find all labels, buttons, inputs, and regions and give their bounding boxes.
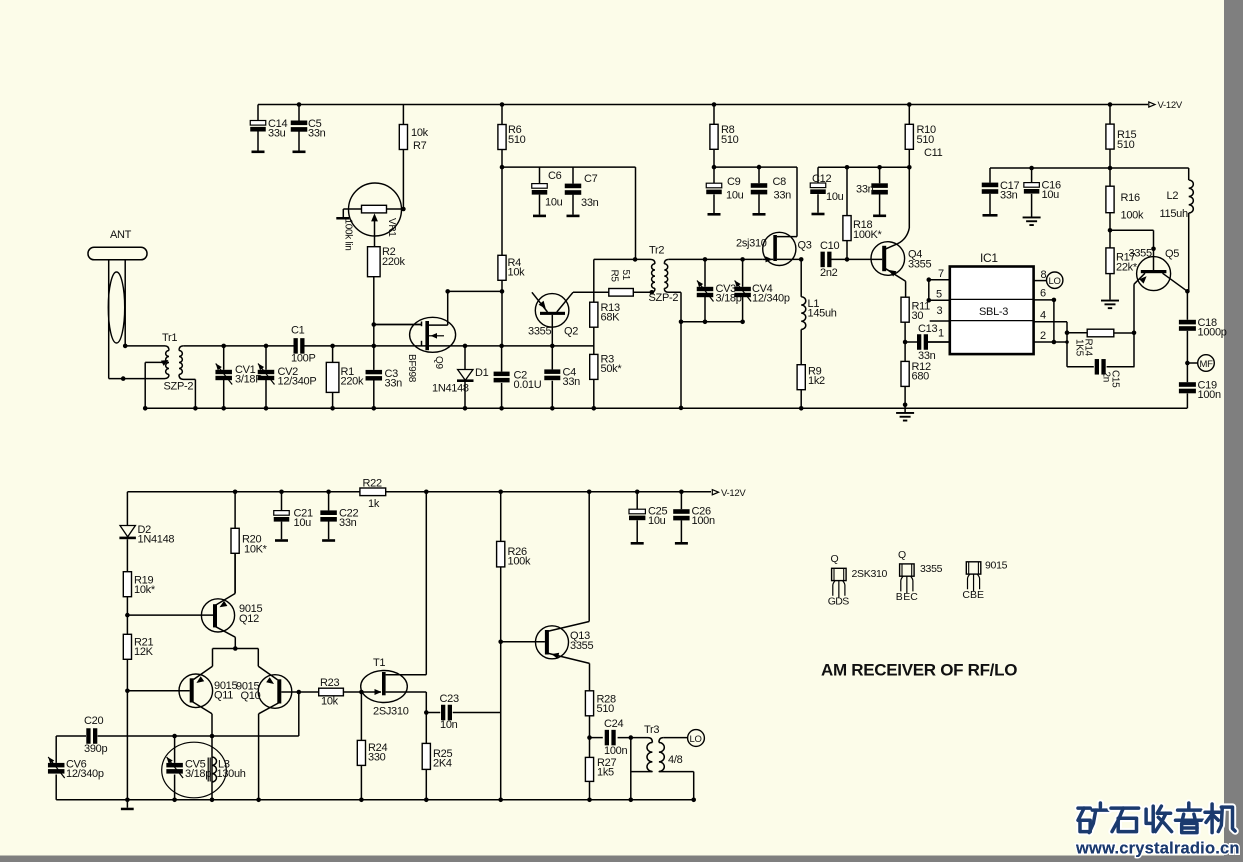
svg-text:3355: 3355 bbox=[528, 326, 551, 338]
wire Q9 drain to R4 bbox=[448, 290, 502, 292]
svg-text:Q10: Q10 bbox=[241, 690, 261, 702]
svg-text:2n2: 2n2 bbox=[820, 267, 838, 279]
wire Q2 collector to R5 bbox=[573, 291, 609, 293]
power arrow lower V-12V bbox=[712, 490, 718, 495]
transistor Q5 3355 bbox=[1137, 257, 1171, 291]
svg-text:10k*: 10k* bbox=[134, 584, 156, 596]
potentiometer VR1 bbox=[349, 183, 402, 236]
svg-text:C: C bbox=[910, 591, 918, 603]
LO port circle lower bbox=[688, 730, 705, 747]
svg-text:LO: LO bbox=[1049, 276, 1061, 287]
svg-text:510: 510 bbox=[917, 134, 935, 146]
watermark glyph shou bbox=[1146, 809, 1153, 823]
svg-text:www.crystalradio.cn: www.crystalradio.cn bbox=[1075, 840, 1240, 858]
MF port circle bbox=[1185, 361, 1190, 366]
resistor R4 bbox=[501, 167, 503, 255]
svg-text:B: B bbox=[896, 591, 903, 603]
svg-text:100k lin: 100k lin bbox=[343, 219, 354, 251]
transistor Q10 9015 bbox=[258, 675, 292, 709]
wire Q5 emitter column bbox=[1133, 284, 1135, 367]
svg-text:E: E bbox=[903, 591, 910, 603]
svg-text:3355: 3355 bbox=[920, 563, 943, 575]
svg-text:1k2: 1k2 bbox=[808, 375, 825, 387]
svg-text:C7: C7 bbox=[584, 173, 598, 185]
variable capacitor CV3 bbox=[703, 257, 708, 262]
wire R16 R17 junction to Q5 base bbox=[1108, 228, 1113, 233]
IC1 pin 8 bbox=[1034, 280, 1047, 282]
svg-text:C20: C20 bbox=[84, 715, 103, 727]
wire R8 bus bbox=[712, 165, 717, 170]
svg-text:220k: 220k bbox=[382, 256, 405, 268]
svg-text:Tr2: Tr2 bbox=[649, 245, 664, 257]
svg-text:50k*: 50k* bbox=[601, 363, 623, 375]
wire Q11 base bbox=[125, 689, 130, 694]
LO port circle bbox=[1047, 272, 1063, 288]
svg-text:2: 2 bbox=[1040, 330, 1046, 342]
capacitor C11 33n bbox=[877, 165, 882, 170]
watermark glyph kuang bbox=[1078, 804, 1090, 811]
svg-text:33n: 33n bbox=[856, 184, 874, 196]
resistor R12 bbox=[901, 361, 909, 386]
resistor R24 330 bbox=[360, 692, 362, 740]
wire C17 C16 bus bbox=[1108, 166, 1113, 171]
wire R26 column to C23 wire bbox=[500, 642, 502, 713]
svg-text:12K: 12K bbox=[134, 646, 154, 658]
IC1 pin 4 bbox=[1034, 321, 1067, 323]
svg-text:Q12: Q12 bbox=[239, 613, 259, 625]
svg-text:Q2: Q2 bbox=[564, 326, 578, 338]
svg-text:510: 510 bbox=[721, 134, 739, 146]
capacitor C22 bbox=[326, 490, 331, 495]
resistor R10 bbox=[907, 102, 912, 107]
svg-text:510: 510 bbox=[508, 134, 526, 146]
svg-text:D1: D1 bbox=[475, 367, 489, 379]
svg-text:7: 7 bbox=[938, 268, 944, 280]
variable capacitor CV2 bbox=[264, 344, 269, 349]
IC1 pin 2 bbox=[1034, 341, 1054, 343]
svg-text:C8: C8 bbox=[773, 176, 787, 188]
capacitor C26 bbox=[679, 490, 684, 495]
svg-text:100k: 100k bbox=[1121, 210, 1144, 222]
resistor R8 bbox=[712, 102, 717, 107]
svg-text:33n: 33n bbox=[774, 190, 792, 202]
wire Tr1 tap bbox=[144, 362, 146, 408]
capacitor C25 bbox=[635, 490, 640, 495]
capacitor C17 bbox=[989, 168, 991, 183]
svg-text:R7: R7 bbox=[413, 140, 427, 152]
svg-text:R14: R14 bbox=[1083, 339, 1094, 357]
variable capacitor CV5 bbox=[172, 734, 177, 739]
svg-text:12/340p: 12/340p bbox=[66, 768, 104, 780]
svg-text:10u: 10u bbox=[826, 191, 844, 203]
IC1 SBL-3 box bbox=[950, 267, 1034, 355]
transistor Q9 BF998 bbox=[410, 317, 456, 352]
resistor R21 bbox=[123, 634, 131, 659]
svg-text:10k: 10k bbox=[411, 127, 429, 139]
resistor R2 bbox=[368, 247, 381, 277]
resistor R28 510 bbox=[585, 691, 593, 716]
svg-text:10u: 10u bbox=[648, 515, 666, 527]
capacitor C1 bbox=[294, 338, 298, 354]
svg-text:33n: 33n bbox=[339, 517, 357, 529]
svg-text:9015: 9015 bbox=[985, 560, 1008, 572]
svg-text:S: S bbox=[842, 596, 849, 608]
capacitor C24 bbox=[587, 735, 592, 740]
wire Q12 base bbox=[125, 613, 130, 618]
svg-text:Tr1: Tr1 bbox=[162, 332, 177, 344]
variable capacitor CV4 bbox=[740, 257, 745, 262]
svg-text:10K*: 10K* bbox=[244, 544, 268, 556]
capacitor C6 bbox=[539, 167, 541, 184]
svg-text:220k: 220k bbox=[341, 376, 364, 388]
svg-text:AM RECEIVER OF RF/LO: AM RECEIVER OF RF/LO bbox=[821, 661, 1017, 680]
wire bottom rail top-circuit bbox=[145, 407, 1187, 409]
legend transistor package 9015 bbox=[966, 562, 981, 574]
svg-text:10k: 10k bbox=[508, 267, 526, 279]
watermark glyph ji bbox=[1208, 804, 1215, 833]
svg-text:VR1: VR1 bbox=[386, 218, 397, 237]
svg-text:10u: 10u bbox=[726, 190, 744, 202]
capacitor C20 bbox=[56, 735, 86, 737]
svg-text:3355: 3355 bbox=[570, 640, 593, 652]
gray border right bbox=[1224, 0, 1243, 862]
resistor R25 2K4 bbox=[425, 713, 427, 744]
capacitor C15 bbox=[1067, 366, 1094, 368]
svg-text:33n: 33n bbox=[385, 378, 403, 390]
gray border bottom bbox=[0, 856, 1243, 862]
capacitor C13 bbox=[903, 340, 908, 345]
svg-text:4: 4 bbox=[1040, 310, 1046, 322]
svg-text:Tr3: Tr3 bbox=[644, 724, 659, 736]
svg-text:C23: C23 bbox=[440, 693, 459, 705]
resistor R3 bbox=[590, 354, 598, 379]
diode D2 1N4148 bbox=[126, 492, 128, 526]
wire Q9 drain bbox=[445, 289, 450, 294]
terminator bar lower-left bbox=[126, 800, 128, 808]
wire Q10 emitter bbox=[258, 714, 260, 800]
svg-text:3/18p: 3/18p bbox=[185, 768, 211, 780]
IC1 pin 1 bbox=[927, 341, 950, 343]
inductor L2 bbox=[1188, 168, 1190, 180]
watermark glyph shi bbox=[1111, 804, 1139, 811]
svg-text:12/340p: 12/340p bbox=[752, 293, 790, 305]
svg-text:C10: C10 bbox=[820, 240, 839, 252]
svg-text:SZP-2: SZP-2 bbox=[164, 381, 194, 393]
svg-text:33n: 33n bbox=[308, 128, 326, 140]
svg-text:2SJ310: 2SJ310 bbox=[373, 706, 409, 718]
svg-text:510: 510 bbox=[1117, 139, 1135, 151]
capacitor C8 bbox=[757, 165, 762, 170]
svg-text:2K4: 2K4 bbox=[433, 758, 452, 770]
wire top V-12V power rail bbox=[258, 104, 1148, 106]
wire C6 C7 bus bbox=[500, 165, 505, 170]
capacitor C19 bbox=[1186, 363, 1188, 382]
svg-text:680: 680 bbox=[912, 371, 930, 383]
svg-text:L2: L2 bbox=[1167, 190, 1179, 202]
svg-text:10k: 10k bbox=[321, 696, 339, 708]
IC1 pin 3 bbox=[930, 320, 950, 322]
resistor R7 bbox=[402, 105, 404, 125]
svg-text:1k: 1k bbox=[368, 498, 380, 510]
svg-text:LO: LO bbox=[690, 734, 702, 745]
diode D1 1N4148 bbox=[463, 344, 468, 349]
svg-text:IC1: IC1 bbox=[980, 251, 998, 265]
capacitor C9 bbox=[713, 167, 715, 183]
wire emitter bracket bbox=[233, 646, 238, 651]
wire pin2 to R14 node bbox=[1066, 333, 1068, 367]
wire C12 bus bbox=[818, 166, 909, 168]
svg-text:10u: 10u bbox=[294, 517, 312, 529]
IC1 pin 6 bbox=[1034, 299, 1054, 301]
svg-text:100n: 100n bbox=[1198, 389, 1221, 401]
resistor R19 bbox=[123, 572, 131, 597]
capacitor C21 bbox=[279, 490, 284, 495]
svg-text:1N4148: 1N4148 bbox=[432, 383, 469, 395]
svg-text:10u: 10u bbox=[1042, 189, 1060, 201]
svg-text:30: 30 bbox=[912, 310, 924, 322]
wire R2 to Q9 gate1 bbox=[372, 322, 377, 327]
variable capacitor CV1 bbox=[221, 344, 226, 349]
wire ANT to Tr1 bbox=[123, 344, 128, 349]
resistor R9 bbox=[797, 365, 805, 390]
resistor R5 51 bbox=[609, 289, 634, 297]
capacitor C10 bbox=[821, 252, 825, 268]
resistor R26 100k bbox=[498, 490, 503, 495]
svg-text:3355: 3355 bbox=[908, 259, 931, 271]
svg-text:100n: 100n bbox=[692, 515, 715, 527]
wire Q11 emitter bbox=[211, 714, 213, 800]
svg-text:Q11: Q11 bbox=[214, 690, 233, 702]
svg-text:C1: C1 bbox=[291, 325, 305, 337]
wire Q4 emitter to R11 bbox=[905, 281, 907, 297]
transistor Q2 3355 bbox=[535, 294, 569, 328]
capacitor C7 bbox=[572, 167, 574, 184]
resistor R27 1k5 bbox=[589, 738, 591, 758]
inductor L1 bbox=[799, 257, 804, 262]
svg-text:22k*: 22k* bbox=[1116, 262, 1138, 274]
resistor R20 bbox=[233, 490, 238, 495]
svg-text:4/8: 4/8 bbox=[668, 754, 683, 766]
svg-text:1k5: 1k5 bbox=[597, 767, 614, 779]
svg-text:2SK310: 2SK310 bbox=[852, 568, 888, 580]
svg-text:Q: Q bbox=[831, 553, 839, 565]
svg-text:33n: 33n bbox=[563, 376, 581, 388]
resistor R22 1k bbox=[360, 488, 386, 496]
svg-text:10u: 10u bbox=[545, 197, 563, 209]
resistor R23 10k bbox=[299, 691, 319, 693]
wire Tr3 secondary to LO bbox=[663, 737, 687, 739]
wire mid row 2 bbox=[333, 345, 594, 347]
resistor R18 bbox=[845, 165, 850, 170]
resistor R14 1K5 bbox=[1087, 329, 1114, 337]
transistor Q4 3355 bbox=[871, 242, 905, 276]
svg-text:145uh: 145uh bbox=[808, 308, 837, 320]
transistor Q13 3355 bbox=[536, 626, 569, 659]
capacitor C14 bbox=[257, 105, 259, 121]
transistor Q12 9015 bbox=[201, 599, 234, 632]
svg-text:Q5: Q5 bbox=[1165, 248, 1179, 260]
svg-text:R23: R23 bbox=[320, 677, 339, 689]
svg-text:100k: 100k bbox=[508, 556, 531, 568]
IC1 pin 5 bbox=[929, 299, 950, 301]
svg-text:SZP-2: SZP-2 bbox=[649, 292, 679, 304]
transistor Q11 9015 bbox=[179, 674, 213, 708]
transistor Q3 2sj310 bbox=[763, 232, 796, 265]
resistor R6 bbox=[500, 102, 505, 107]
svg-text:T1: T1 bbox=[373, 657, 385, 669]
inductor L3 with core bbox=[212, 757, 216, 782]
svg-text:33n: 33n bbox=[581, 197, 599, 209]
wire lower bottom rail bbox=[56, 799, 694, 801]
svg-text:C6: C6 bbox=[548, 170, 562, 182]
wire CV3 CV4 bottom bus bbox=[681, 321, 743, 323]
capacitor C2 bbox=[499, 344, 504, 349]
svg-text:115uh: 115uh bbox=[1160, 208, 1188, 220]
svg-text:Q: Q bbox=[898, 549, 906, 561]
resistor R1 bbox=[330, 344, 335, 349]
resistor R13 bbox=[593, 259, 595, 302]
ground below R17 bbox=[1101, 300, 1119, 302]
capacitor C16 bbox=[1029, 166, 1034, 171]
wire Q10 base bbox=[281, 691, 299, 693]
svg-text:C24: C24 bbox=[604, 718, 623, 730]
svg-text:390p: 390p bbox=[84, 743, 107, 755]
svg-text:R22: R22 bbox=[363, 478, 382, 490]
svg-text:SBL-3: SBL-3 bbox=[979, 306, 1008, 318]
svg-text:Q3: Q3 bbox=[798, 240, 812, 252]
svg-text:33n: 33n bbox=[1000, 190, 1018, 202]
wire Tr2 to Q3 row bbox=[669, 258, 763, 260]
wire R10 to Q4 collector bbox=[908, 167, 910, 228]
svg-text:51: 51 bbox=[620, 270, 631, 281]
svg-text:100n: 100n bbox=[604, 745, 627, 757]
svg-text:R16: R16 bbox=[1121, 192, 1140, 204]
wire mid row bbox=[183, 345, 294, 347]
power arrow V-12V bbox=[1149, 102, 1155, 107]
svg-text:1N4148: 1N4148 bbox=[138, 534, 175, 546]
svg-text:1: 1 bbox=[938, 328, 944, 340]
resistor R16 bbox=[1109, 168, 1111, 186]
resistor R11 bbox=[901, 297, 909, 322]
svg-text:C9: C9 bbox=[727, 176, 741, 188]
watermark glyph yin bbox=[1185, 803, 1192, 808]
svg-text:C12: C12 bbox=[812, 173, 831, 185]
svg-text:6: 6 bbox=[1040, 288, 1046, 300]
svg-text:33u: 33u bbox=[268, 128, 286, 140]
svg-text:5: 5 bbox=[936, 289, 942, 301]
ground below R12 bbox=[904, 408, 906, 412]
svg-text:3355: 3355 bbox=[1129, 248, 1152, 260]
svg-text:8: 8 bbox=[1041, 269, 1047, 281]
svg-text:330: 330 bbox=[368, 752, 386, 764]
svg-text:C13: C13 bbox=[918, 323, 937, 335]
svg-text:C15: C15 bbox=[1110, 370, 1121, 388]
svg-text:0.01U: 0.01U bbox=[514, 379, 542, 391]
resistor R15 bbox=[1108, 102, 1113, 107]
capacitor C12 bbox=[817, 167, 819, 183]
svg-text:100K*: 100K* bbox=[853, 229, 882, 241]
svg-text:E: E bbox=[977, 589, 984, 601]
svg-text:12/340P: 12/340P bbox=[278, 376, 317, 388]
capacitor C5 bbox=[297, 102, 302, 107]
svg-text:V-12V: V-12V bbox=[721, 488, 746, 499]
svg-text:Q9: Q9 bbox=[433, 356, 444, 369]
svg-text:V-12V: V-12V bbox=[1158, 100, 1183, 111]
capacitor C18 bbox=[1186, 291, 1188, 320]
svg-text:C11: C11 bbox=[924, 147, 943, 159]
svg-text:3: 3 bbox=[937, 305, 943, 317]
svg-text:1000p: 1000p bbox=[1198, 327, 1227, 339]
capacitor C4 bbox=[551, 346, 553, 370]
svg-text:B: B bbox=[970, 589, 977, 601]
wire lower V-12V rail bbox=[127, 491, 711, 493]
svg-text:BF998: BF998 bbox=[406, 354, 417, 383]
wire Q2 base node bbox=[550, 344, 555, 349]
transistor T1 2SJ310 bbox=[361, 671, 408, 703]
svg-text:MF: MF bbox=[1200, 359, 1214, 370]
svg-text:R5: R5 bbox=[609, 270, 620, 283]
variable capacitor CV6 bbox=[55, 736, 57, 763]
tuned circuit CV5 L3 circle bbox=[162, 742, 227, 798]
svg-text:510: 510 bbox=[597, 703, 615, 715]
IC1 pin 7 bbox=[929, 279, 950, 281]
svg-text:130uh: 130uh bbox=[217, 768, 246, 780]
resistor R17 bbox=[1106, 248, 1114, 274]
svg-text:10n: 10n bbox=[440, 719, 458, 731]
capacitor C3 bbox=[372, 344, 377, 349]
svg-text:68K: 68K bbox=[601, 312, 621, 324]
svg-text:100P: 100P bbox=[291, 353, 316, 365]
capacitor C23 bbox=[424, 710, 429, 715]
svg-text:ANT: ANT bbox=[110, 229, 132, 241]
svg-text:2sj310: 2sj310 bbox=[736, 238, 767, 250]
